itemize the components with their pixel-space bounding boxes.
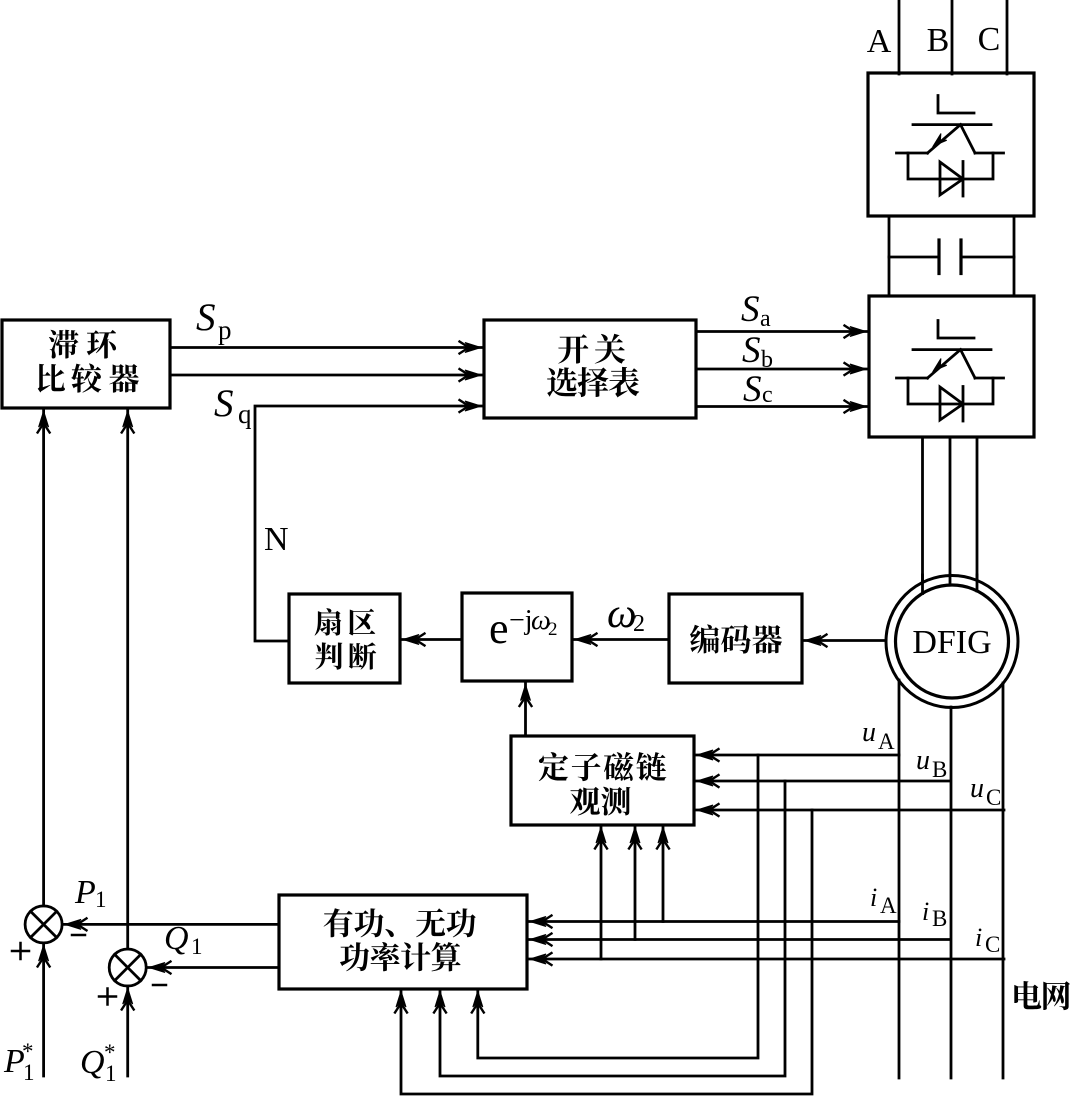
wire Sc [696, 401, 869, 413]
wire Q1 ref [122, 986, 134, 1076]
svg-text:u: u [862, 717, 876, 748]
svg-text:C: C [978, 21, 1001, 58]
wire uA to power calc [472, 755, 758, 1058]
wire exp to sector [400, 634, 462, 646]
svg-text:i: i [922, 897, 929, 926]
label uC [970, 773, 1001, 810]
svg-text:P: P [74, 874, 96, 911]
wire comparator out 2 [170, 369, 484, 381]
wire phase A [898, 0, 901, 74]
label Sb [742, 330, 773, 373]
wire rotor c [976, 437, 979, 591]
svg-text:2: 2 [548, 619, 558, 640]
label Sp [196, 296, 232, 345]
label Q1 ref [80, 1040, 117, 1086]
sector judge block [289, 594, 400, 683]
svg-text:q: q [238, 399, 252, 429]
label omega2 [607, 591, 645, 637]
IGBT Q1 [897, 96, 1004, 154]
svg-text:DFIG: DFIG [912, 624, 991, 661]
label grid [1014, 981, 1070, 1010]
wire rotor ends [923, 575, 978, 594]
svg-text:c: c [762, 382, 773, 408]
encoder block [669, 594, 802, 683]
svg-text:A: A [867, 23, 892, 60]
wire iC to flux observer [595, 825, 607, 959]
label Sa [741, 289, 771, 332]
DFIG machine G1 [886, 576, 1018, 708]
wire iB to flux observer [629, 825, 641, 940]
svg-text:e: e [489, 604, 509, 653]
svg-text:i: i [870, 883, 877, 912]
svg-text:p: p [218, 315, 232, 345]
wire rotor a [921, 437, 924, 594]
wire N feedback [255, 400, 484, 641]
svg-text:B: B [927, 22, 950, 59]
power calculator block [279, 895, 527, 989]
label iA [870, 883, 897, 918]
wire uC [694, 804, 1004, 816]
plus sign P [12, 943, 29, 959]
diode D1 [908, 153, 993, 196]
label comparator text [38, 330, 139, 393]
wire stator B [950, 707, 953, 1078]
svg-text:b: b [761, 347, 773, 373]
grid-side converter U1 [868, 73, 1034, 216]
svg-text:N: N [264, 521, 289, 558]
diode D2 [908, 378, 993, 421]
wire stator A [898, 680, 901, 1078]
wire P error to comparator [38, 409, 50, 906]
label Sc [743, 369, 773, 410]
svg-text:u: u [970, 773, 984, 804]
wire rotor b [949, 437, 952, 585]
exp(-j w2) block U3 [462, 593, 572, 681]
wire iC [527, 953, 1004, 965]
wire stator C [1002, 683, 1005, 1078]
label flux observer text [539, 752, 667, 816]
svg-text:A: A [880, 893, 897, 918]
wire iA [527, 916, 899, 928]
stator flux observer block [511, 736, 694, 825]
wire Q error to comparator [122, 409, 134, 949]
IGBT Q2 [897, 321, 1004, 379]
wire uC to power calc [395, 810, 812, 1094]
label encoder text [690, 624, 782, 653]
hysteresis comparator block [2, 320, 170, 408]
label uB [916, 745, 947, 782]
svg-text:S: S [196, 296, 216, 339]
minus sign Q [153, 984, 166, 987]
svg-text:C: C [985, 932, 1000, 957]
switch selection table block [484, 320, 696, 418]
svg-text:A: A [878, 729, 895, 754]
wire Sp [170, 342, 484, 354]
wire uB [694, 775, 950, 787]
wire iA to flux observer [657, 825, 669, 922]
wire iB [527, 934, 950, 946]
label P1 ref [3, 1039, 35, 1085]
svg-text:B: B [932, 757, 947, 782]
wire P1 ref [38, 943, 50, 1076]
wire uB to power calc [434, 781, 785, 1076]
svg-text:i: i [975, 923, 982, 952]
wire phase B [951, 0, 954, 74]
svg-text:S: S [743, 369, 762, 410]
svg-text:Q: Q [164, 920, 189, 957]
label iB [922, 897, 947, 931]
svg-text:*: * [22, 1039, 34, 1064]
svg-text:−j: −j [509, 605, 533, 636]
svg-text:Q: Q [80, 1044, 105, 1081]
wire Sa [696, 326, 869, 338]
label iC [975, 923, 1000, 957]
wire P1 [62, 918, 279, 930]
svg-text:1: 1 [191, 934, 203, 959]
wire flux to exp [520, 683, 532, 736]
wire DFIG to encoder [802, 635, 886, 647]
label sector text [315, 608, 377, 669]
svg-text:2: 2 [633, 611, 645, 637]
minus sign P [72, 934, 85, 937]
label power calculator text [324, 908, 476, 971]
plus sign Q [99, 989, 116, 1005]
svg-text:S: S [741, 289, 760, 330]
wire DC bus right [1013, 216, 1016, 296]
label switch table text [547, 334, 639, 398]
capacitor C1 [889, 240, 1014, 274]
wire encoder to exp block, omega2 [572, 634, 669, 646]
svg-text:1: 1 [95, 887, 107, 912]
label Q1 [164, 920, 203, 959]
svg-text:a: a [760, 306, 771, 332]
label Sq [214, 382, 252, 429]
svg-text:u: u [916, 745, 930, 776]
wire Q1 [146, 962, 279, 974]
svg-text:C: C [986, 785, 1001, 810]
svg-text:B: B [932, 906, 947, 931]
wire Sb [696, 363, 869, 375]
label exp block text [489, 604, 558, 653]
label P1 [74, 874, 107, 912]
summing junction P [25, 906, 62, 943]
wire phase C [1006, 0, 1009, 74]
svg-text:S: S [742, 330, 761, 371]
summing junction Q [109, 949, 146, 986]
rotor-side converter U2 [869, 296, 1034, 437]
svg-text:*: * [104, 1040, 116, 1065]
wire uA [694, 749, 899, 761]
wire DC bus left [888, 216, 891, 296]
svg-text:S: S [214, 382, 234, 425]
label uA [862, 717, 895, 754]
